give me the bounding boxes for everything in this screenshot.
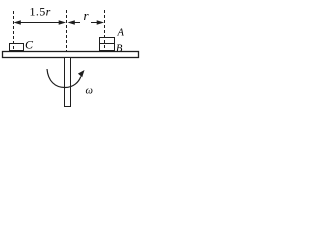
block C [10,44,24,51]
dimension arrow r (left half) [68,20,81,25]
block A [100,38,115,44]
platform slab [3,52,139,58]
dimension arrow r (right half) [91,20,104,25]
svg-text:C: C [25,38,34,52]
background [0,0,144,111]
rotation arrowhead [78,70,85,77]
shaft [65,58,71,107]
dashed radius line through C [13,11,15,50]
dimension arrow 1.5r [14,20,67,25]
dashed axis line (center) [66,10,68,51]
block B [100,44,115,51]
svg-text:ω: ω [86,86,93,97]
dashed radius line through A/B [104,10,106,50]
svg-text:A: A [117,28,125,39]
svg-text:1.5r: 1.5r [30,5,51,19]
rotation arc [47,69,81,88]
